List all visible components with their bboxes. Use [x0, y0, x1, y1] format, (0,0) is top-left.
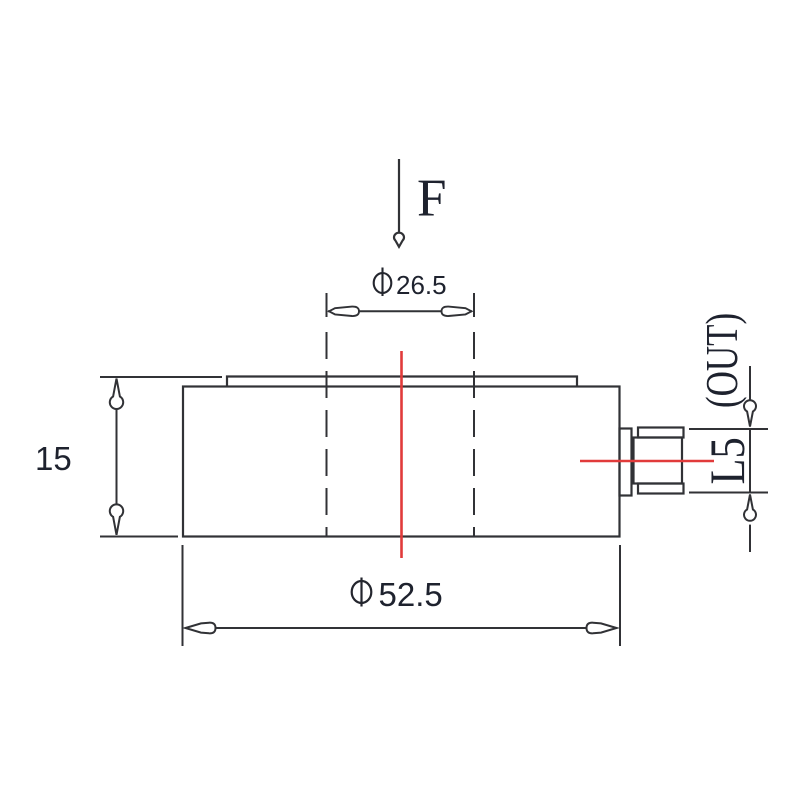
node connector nut top flat: [638, 428, 684, 438]
wire dimension line L5 middle: [749, 429, 751, 493]
node label dia 26.5: [374, 268, 392, 297]
wire extension line top of 15: [100, 376, 222, 378]
wire dimension line L5 upper: [749, 366, 751, 400]
node arrow right dia 52.5: [587, 623, 617, 634]
node connector nut middle: [634, 438, 683, 484]
node connector collar: [620, 429, 632, 496]
node arrow 15 bottom: [110, 504, 123, 534]
svg-text:F: F: [417, 170, 446, 228]
wire extension line left of dia 52.5: [182, 545, 184, 646]
node arrow left dia 52.5: [186, 623, 216, 634]
node arrow L5 bottom: [744, 495, 756, 521]
node main body outline: [183, 387, 620, 537]
node arrow L5 top: [744, 400, 756, 426]
svg-text:52.5: 52.5: [379, 576, 443, 613]
wire dashed projection line left: [326, 332, 328, 537]
wire extension line bottom of 15: [100, 536, 178, 538]
wire dimension line dia 26.5: [328, 310, 472, 312]
wire extension line right of dia 52.5: [619, 545, 621, 646]
node connector nut bottom flat: [638, 484, 684, 494]
wire extension line right of dia 26.5: [473, 293, 475, 317]
svg-text:(OUT): (OUT): [696, 313, 747, 408]
node label dia 52.5: [352, 578, 372, 607]
wire red horizontal centerline: [580, 460, 714, 463]
node F arrowhead: [394, 233, 404, 247]
node arrow 15 top: [110, 379, 123, 409]
wire dimension line dia 52.5: [185, 627, 617, 629]
svg-text:26.5: 26.5: [396, 270, 447, 300]
node arrow left dia 26.5: [329, 307, 359, 316]
wire extension line top of L5: [689, 428, 768, 430]
svg-text:L5: L5: [701, 437, 756, 484]
wire dashed projection line right: [473, 332, 475, 537]
svg-text:15: 15: [35, 440, 72, 477]
wire force line F: [398, 159, 400, 232]
wire dimension line L5 lower: [749, 525, 751, 552]
node top plate: [227, 377, 577, 387]
wire extension line left of dia 26.5: [326, 293, 328, 317]
wire red vertical centerline: [400, 351, 403, 558]
wire extension line bottom of L5: [689, 492, 768, 494]
node arrow right dia 26.5: [442, 307, 472, 316]
wire dimension line 15: [116, 379, 118, 535]
